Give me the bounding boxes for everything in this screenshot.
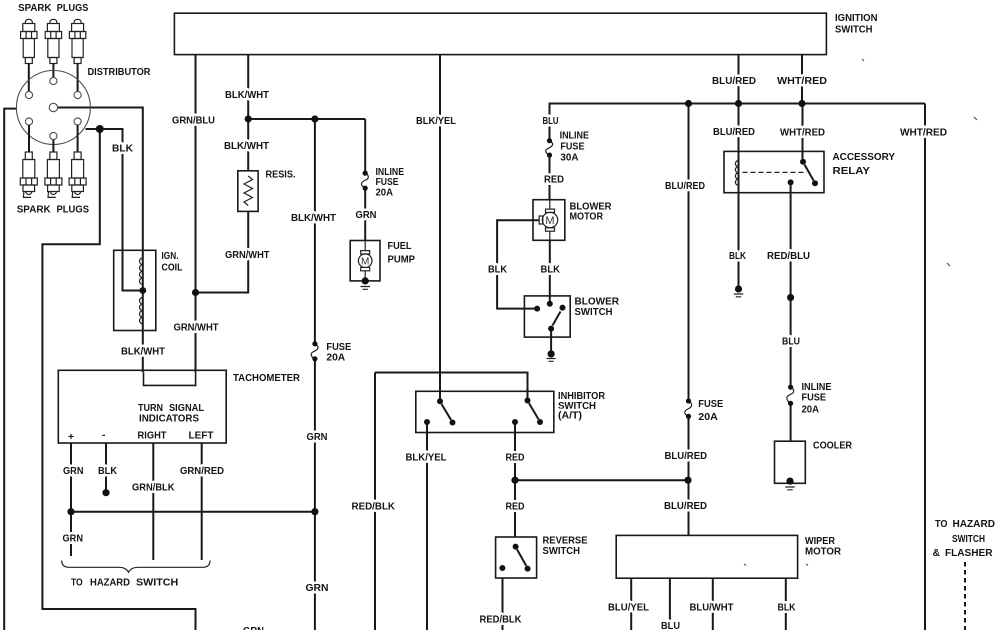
svg-text:TO: TO (71, 578, 83, 589)
reverse switch contacts and arm (499, 544, 530, 572)
svg-text:SWITCH: SWITCH (543, 546, 581, 557)
fuse 20A (x=688) (685, 401, 692, 416)
svg-text:MOTOR: MOTOR (805, 547, 842, 558)
wire: distributor left lead down page-left edge (4, 109, 16, 630)
wire BLK: blower motor to blower switch loop (497, 220, 539, 308)
spark plug top 2 (45, 19, 61, 81)
node: tachometer GRN junction (67, 508, 74, 515)
svg-text:SPARK: SPARK (18, 3, 52, 14)
wire: to hazard switch and flasher (dashed) (964, 562, 966, 630)
wire WHT/RED: to relay switch (802, 104, 804, 162)
svg-text:MOTOR: MOTOR (570, 212, 604, 223)
node: accessory bus junctions (685, 100, 806, 107)
svg-text:GRN: GRN (243, 626, 264, 630)
spark plug bottom 3 (69, 152, 86, 197)
svg-text:RED/BLU: RED/BLU (767, 251, 810, 262)
svg-text:LEFT: LEFT (189, 431, 215, 442)
svg-text:&: & (933, 548, 941, 559)
svg-text:BLK/WHT: BLK/WHT (224, 141, 270, 152)
inline fuse 30A (blower) (546, 141, 553, 155)
svg-text:-: - (102, 430, 106, 441)
spark plug bottom 1 (20, 152, 37, 197)
distributor body circle (16, 71, 90, 145)
wire BLU/YEL: wiper motor output 1 (630, 578, 632, 630)
svg-text:BLU: BLU (661, 621, 680, 630)
node: cooler fuse dots (788, 385, 793, 406)
wire BLK: distributor edge to ignition coil primary (86, 129, 143, 291)
svg-text:FUSE: FUSE (326, 342, 351, 353)
svg-text:FUSE: FUSE (802, 393, 827, 404)
svg-text:20A: 20A (326, 352, 345, 363)
svg-text:BLU/YEL: BLU/YEL (608, 603, 649, 614)
wire RED/BLU-BLU: relay output through fuse to cooler (790, 182, 792, 441)
wire: hazard feed horizontal y=511.7 (71, 511, 315, 513)
node: relay BLK ground terminal (735, 285, 742, 292)
blower motor M (539, 200, 558, 241)
wire: tachometer - output BLK (105, 443, 107, 493)
fuse 20A (x=315) (311, 344, 318, 359)
svg-text:20A: 20A (376, 188, 394, 199)
svg-text:RED: RED (506, 453, 525, 464)
wire: inhibitor switch top feed horizontal (375, 373, 528, 401)
svg-text:RED/BLK: RED/BLK (480, 615, 523, 626)
blower motor box (533, 200, 565, 241)
svg-text:BLK: BLK (541, 265, 561, 276)
wire RED/BLK: reverse switch output (502, 578, 504, 630)
wire BLK/YEL: inhibitor output to bottom (426, 422, 428, 630)
svg-text:BLU/RED: BLU/RED (665, 181, 705, 192)
svg-text:PLUGS: PLUGS (57, 205, 90, 216)
node: tachometer BLK dead end (102, 489, 109, 496)
svg-text:WHT/RED: WHT/RED (900, 128, 947, 139)
svg-text:GRN: GRN (356, 210, 377, 221)
node: fuse terminal dots fuel pump (363, 171, 368, 191)
accessory relay switch (788, 159, 818, 187)
wire WHT/RED: right side vertical to bottom (924, 104, 926, 630)
svg-text:RELAY: RELAY (833, 166, 871, 177)
node: hazard line right junction (311, 508, 318, 515)
svg-text:BLOWER: BLOWER (575, 297, 620, 308)
wire GRN/RED: tachometer LEFT output (201, 443, 203, 560)
distributor lower lead wires (29, 125, 78, 152)
svg-text:FUEL: FUEL (388, 241, 412, 252)
svg-text:GRN: GRN (63, 466, 84, 477)
svg-text:FLASHER: FLASHER (945, 548, 993, 559)
ground: relay BLK (734, 294, 743, 297)
node: fuse terminal dots x=315 (312, 341, 317, 361)
svg-text:BLK: BLK (729, 251, 746, 262)
svg-text:GRN/WHT: GRN/WHT (225, 250, 270, 261)
ignition coil secondary winding (140, 298, 143, 324)
node: distributor BLK junction (96, 125, 104, 133)
svg-text:20A: 20A (698, 412, 718, 423)
ground: blower switch (547, 359, 556, 362)
svg-text:GRN: GRN (63, 534, 84, 545)
inhibitor switch left contact set (424, 398, 456, 425)
svg-text:BLK: BLK (112, 144, 134, 155)
wire BLK/YEL: ignition switch to inhibitor switch (439, 55, 441, 402)
spark plug top 1 (21, 19, 37, 95)
svg-text:BLK: BLK (778, 603, 796, 614)
svg-text:IGN.: IGN. (162, 251, 179, 262)
resistor RESIS. box and zigzag (238, 171, 258, 212)
node: blower switch ground terminal (548, 350, 555, 357)
inline fuse 20A (fuel pump) (361, 173, 368, 188)
svg-text:GRN/BLU: GRN/BLU (172, 116, 215, 127)
svg-text:INLINE: INLINE (802, 382, 832, 393)
ground: cooler (785, 487, 794, 490)
specks (photocopy artifacts) (744, 59, 977, 566)
svg-text:GRN: GRN (306, 583, 329, 594)
ignition switch box (174, 13, 826, 54)
wire BLU/RED-BLK: relay coil line to ground (738, 104, 740, 290)
node: RED/BLU splice (787, 294, 794, 301)
svg-text:SWITCH: SWITCH (575, 307, 613, 318)
svg-text:RESIS.: RESIS. (266, 170, 296, 181)
inhibitor switch box (416, 391, 554, 432)
wire BLK/WHT: ignition switch through resistor column (196, 55, 249, 293)
svg-text:COIL: COIL (162, 263, 183, 274)
node: coil center tap (139, 287, 146, 294)
svg-text:SWITCH: SWITCH (136, 578, 178, 589)
node: inline fuse 30A dots (547, 138, 552, 158)
svg-text:DISTRIBUTOR: DISTRIBUTOR (88, 67, 151, 78)
svg-text:WHT/RED: WHT/RED (777, 76, 827, 87)
svg-text:GRN/WHT: GRN/WHT (174, 323, 220, 334)
svg-text:INDICATORS: INDICATORS (139, 414, 199, 425)
svg-text:GRN/BLK: GRN/BLK (132, 483, 175, 494)
node: RED junction y=480 (511, 477, 518, 484)
svg-text:BLU/RED: BLU/RED (665, 451, 708, 462)
svg-text:SPARK: SPARK (17, 205, 52, 216)
svg-text:REVERSE: REVERSE (543, 536, 588, 547)
inhibitor switch right contact set (512, 398, 543, 426)
node: GRN/WHT joins GRN/BLU (192, 289, 199, 296)
svg-text:IGNITION: IGNITION (835, 13, 878, 24)
wire BLU: wiper motor output 2 (669, 578, 671, 630)
wire: junction bus y=119 (248, 118, 365, 120)
svg-text:SWITCH: SWITCH (952, 534, 985, 545)
node: junction y=119 mid (311, 115, 318, 122)
svg-text:M: M (361, 257, 369, 268)
svg-text:RED: RED (506, 502, 525, 513)
wire WHT/RED: ignition switch drop (801, 55, 803, 104)
wire GRN: inline fuse to fuel pump (364, 119, 366, 241)
svg-text:SWITCH: SWITCH (835, 25, 873, 36)
svg-text:RED: RED (544, 175, 564, 186)
node: fuse x=688 dots (686, 398, 691, 419)
blower switch contacts and arm (534, 301, 565, 332)
svg-text:GRN/RED: GRN/RED (180, 466, 224, 477)
wire BLK/WHT-GRN: fused line x=315 to bottom (314, 119, 316, 630)
wire: tachometer + output GRN (70, 443, 72, 556)
wire BLU/WHT: wiper motor output 3 (712, 578, 714, 630)
svg-text:+: + (68, 432, 74, 443)
wire GRN/BLU: ignition switch to tachometer (195, 55, 197, 373)
svg-text:BLU: BLU (782, 337, 800, 348)
svg-text:20A: 20A (802, 405, 820, 416)
node: BLK/WHT junction y=119 left (245, 115, 252, 122)
wiper motor box (616, 535, 797, 578)
svg-text:RED/BLK: RED/BLK (352, 502, 396, 513)
ground: fuel pump (361, 287, 371, 290)
wire BLU/RED: ignition switch drop (738, 55, 740, 104)
wire: RED to BLU/RED link y=480 (515, 479, 688, 481)
svg-text:(A/T): (A/T) (558, 411, 582, 422)
svg-text:HAZARD: HAZARD (953, 519, 996, 530)
svg-text:TACHOMETER: TACHOMETER (233, 373, 301, 384)
svg-text:INLINE: INLINE (560, 130, 590, 141)
svg-text:BLK/WHT: BLK/WHT (291, 213, 337, 224)
svg-text:TURN: TURN (138, 403, 163, 414)
accessory relay coil (735, 161, 738, 186)
svg-text:BLK: BLK (98, 466, 117, 477)
svg-text:COOLER: COOLER (813, 441, 852, 452)
svg-text:BLU/WHT: BLU/WHT (690, 603, 735, 614)
accessory relay dashed link (743, 171, 807, 173)
wire: blower switch to ground (550, 329, 552, 354)
ignition coil primary winding (140, 258, 143, 284)
tachometer box (58, 370, 226, 443)
wire GRN/BLK: tachometer RIGHT output (152, 443, 154, 560)
svg-text:GRN: GRN (307, 432, 328, 443)
node: BLU/RED junction y=480 (684, 477, 691, 484)
svg-text:BLK/WHT: BLK/WHT (121, 347, 166, 358)
blower switch box (524, 296, 570, 337)
wire RED/BLK: down left of inhibitor to bottom (374, 373, 376, 630)
wire: distributor ground run down-left to bottom, across to x=195 (42, 129, 195, 630)
wire RED: inhibitor output to reverse switch (514, 422, 516, 537)
svg-text:BLU/RED: BLU/RED (713, 127, 755, 138)
node: cooler ground terminal (786, 478, 793, 485)
svg-text:FUSE: FUSE (698, 399, 723, 410)
svg-text:HAZARD: HAZARD (90, 578, 130, 589)
svg-text:BLK/WHT: BLK/WHT (225, 90, 270, 101)
wire: accessory bus y=103.5 (549, 103, 926, 105)
svg-text:PLUGS: PLUGS (57, 3, 89, 14)
wire BLU/RED: fused line to wiper motor (688, 104, 690, 536)
svg-text:M: M (545, 215, 554, 227)
svg-text:SIGNAL: SIGNAL (169, 403, 204, 414)
fuel pump motor M (358, 241, 372, 281)
accessory relay box (724, 151, 824, 192)
brace: to hazard switch (62, 561, 210, 573)
inline fuse 20A (cooler) (787, 387, 794, 403)
svg-text:ACCESSORY: ACCESSORY (833, 152, 896, 163)
spark plug top 3 (69, 19, 85, 95)
svg-text:FUSE: FUSE (560, 141, 584, 152)
svg-text:WHT/RED: WHT/RED (780, 128, 825, 139)
spark plug bottom 2 (45, 152, 62, 197)
cooler box (775, 441, 806, 483)
wire BLK: blower motor bottom to switch (549, 240, 551, 303)
svg-text:FUSE: FUSE (376, 177, 399, 188)
reverse switch box (496, 537, 537, 578)
wire BLU-RED: blower feed with inline fuse 30A (549, 104, 551, 200)
ignition coil box (114, 250, 156, 330)
svg-text:BLK: BLK (488, 265, 507, 276)
svg-text:TO: TO (935, 519, 948, 530)
svg-text:30A: 30A (560, 153, 579, 164)
node: fuel pump ground terminal (362, 277, 369, 284)
svg-text:PUMP: PUMP (388, 255, 416, 266)
svg-text:RIGHT: RIGHT (138, 431, 168, 442)
svg-text:BLU/RED: BLU/RED (712, 76, 756, 87)
wire BLK: wiper motor output 4 (785, 578, 787, 630)
svg-text:BLK/YEL: BLK/YEL (406, 453, 447, 464)
svg-text:WIPER: WIPER (805, 536, 835, 547)
distributor terminals (25, 77, 81, 139)
svg-text:BLU: BLU (543, 116, 559, 127)
fuel pump box (350, 241, 380, 281)
wire: distributor center terminal to coil top (58, 108, 143, 373)
svg-text:BLU/RED: BLU/RED (664, 501, 707, 512)
svg-text:BLK/YEL: BLK/YEL (416, 116, 456, 127)
